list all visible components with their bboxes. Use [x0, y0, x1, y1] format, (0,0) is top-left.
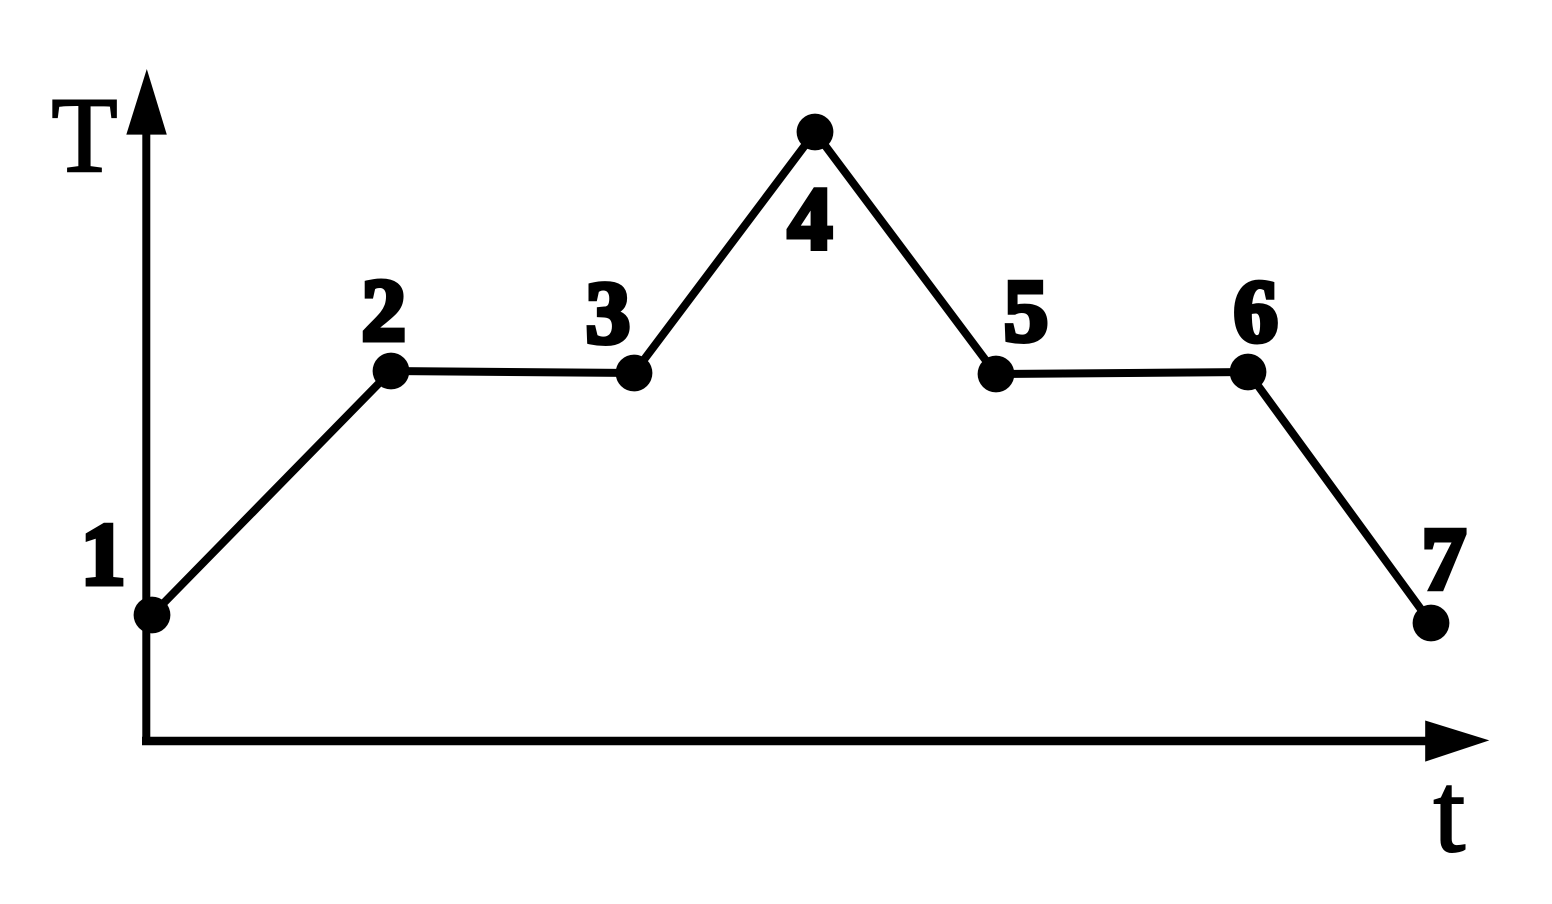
svg-text:6: 6: [1234, 263, 1279, 361]
svg-text:3: 3: [586, 265, 631, 363]
svg-text:T: T: [51, 76, 117, 196]
X axis arrowhead: [1425, 721, 1489, 762]
node dot 3: [616, 355, 653, 392]
svg-text:1: 1: [81, 506, 126, 604]
node dot 6: [1230, 354, 1267, 391]
node dot 7: [1413, 605, 1450, 642]
node dot 4: [797, 114, 834, 151]
Y axis arrowhead: [126, 69, 167, 135]
node dot 1: [134, 597, 171, 634]
polyline through points 1-7: [152, 132, 1431, 623]
node dot 5: [978, 356, 1015, 393]
svg-text:4: 4: [788, 171, 833, 269]
X axis shaft: [142, 737, 1432, 746]
Y axis shaft: [142, 100, 150, 745]
svg-text:7: 7: [1422, 511, 1467, 609]
svg-text:t: t: [1434, 749, 1466, 876]
svg-text:2: 2: [362, 262, 407, 360]
node dot 2: [373, 353, 410, 390]
svg-text:5: 5: [1004, 263, 1049, 361]
